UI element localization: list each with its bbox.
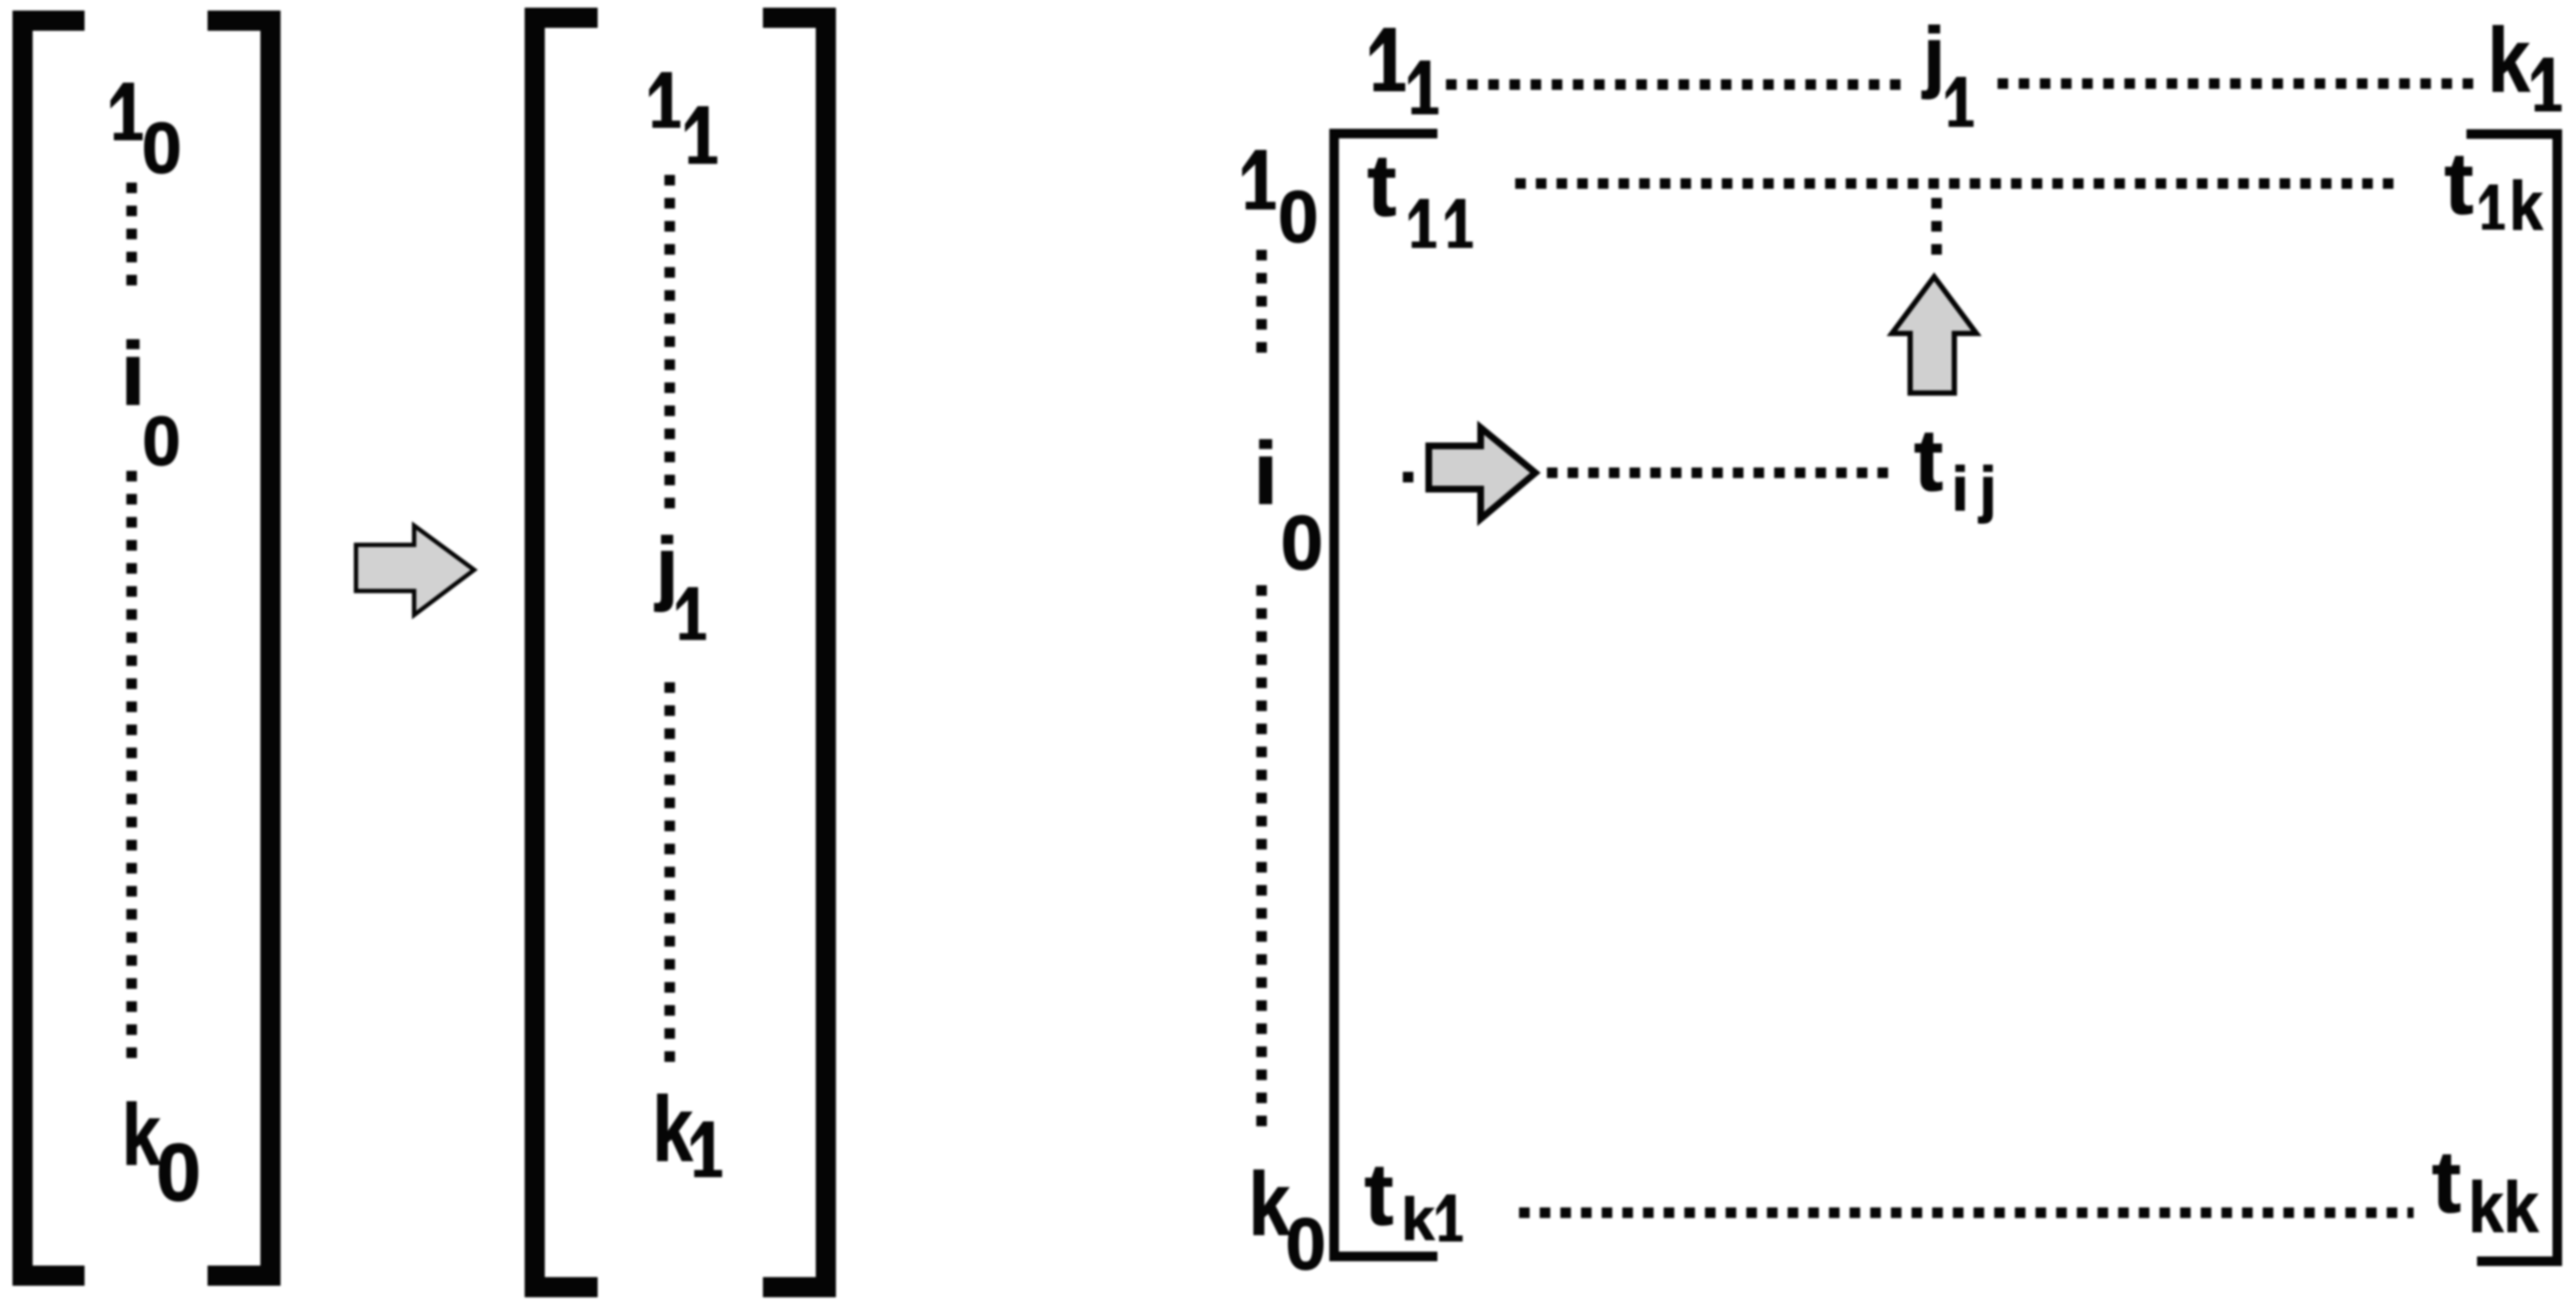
svg-text:t: t — [1364, 1146, 1393, 1243]
svg-text:t: t — [2432, 1134, 2461, 1231]
svg-text:kk: kk — [2468, 1168, 2539, 1247]
svg-text:ij: ij — [1951, 454, 2007, 524]
svg-text:0: 0 — [1286, 1204, 1326, 1286]
svg-text:t: t — [1367, 137, 1396, 234]
svg-text:i: i — [1254, 425, 1279, 523]
svg-text:k: k — [1249, 1154, 1290, 1254]
svg-text:0: 0 — [142, 404, 181, 480]
svg-text:t: t — [2444, 135, 2473, 233]
svg-text:0: 0 — [1281, 500, 1324, 585]
svg-text:k: k — [2510, 169, 2543, 245]
svg-text:0: 0 — [157, 1127, 202, 1218]
svg-text:0: 0 — [1278, 177, 1318, 258]
svg-text:k: k — [652, 1078, 693, 1181]
svg-text:k: k — [1402, 1187, 1435, 1253]
svg-text:j: j — [1922, 11, 1946, 100]
svg-text:t: t — [1914, 412, 1943, 509]
svg-text:k: k — [2488, 10, 2530, 111]
svg-text:0: 0 — [142, 108, 183, 188]
svg-text:j: j — [654, 522, 679, 613]
